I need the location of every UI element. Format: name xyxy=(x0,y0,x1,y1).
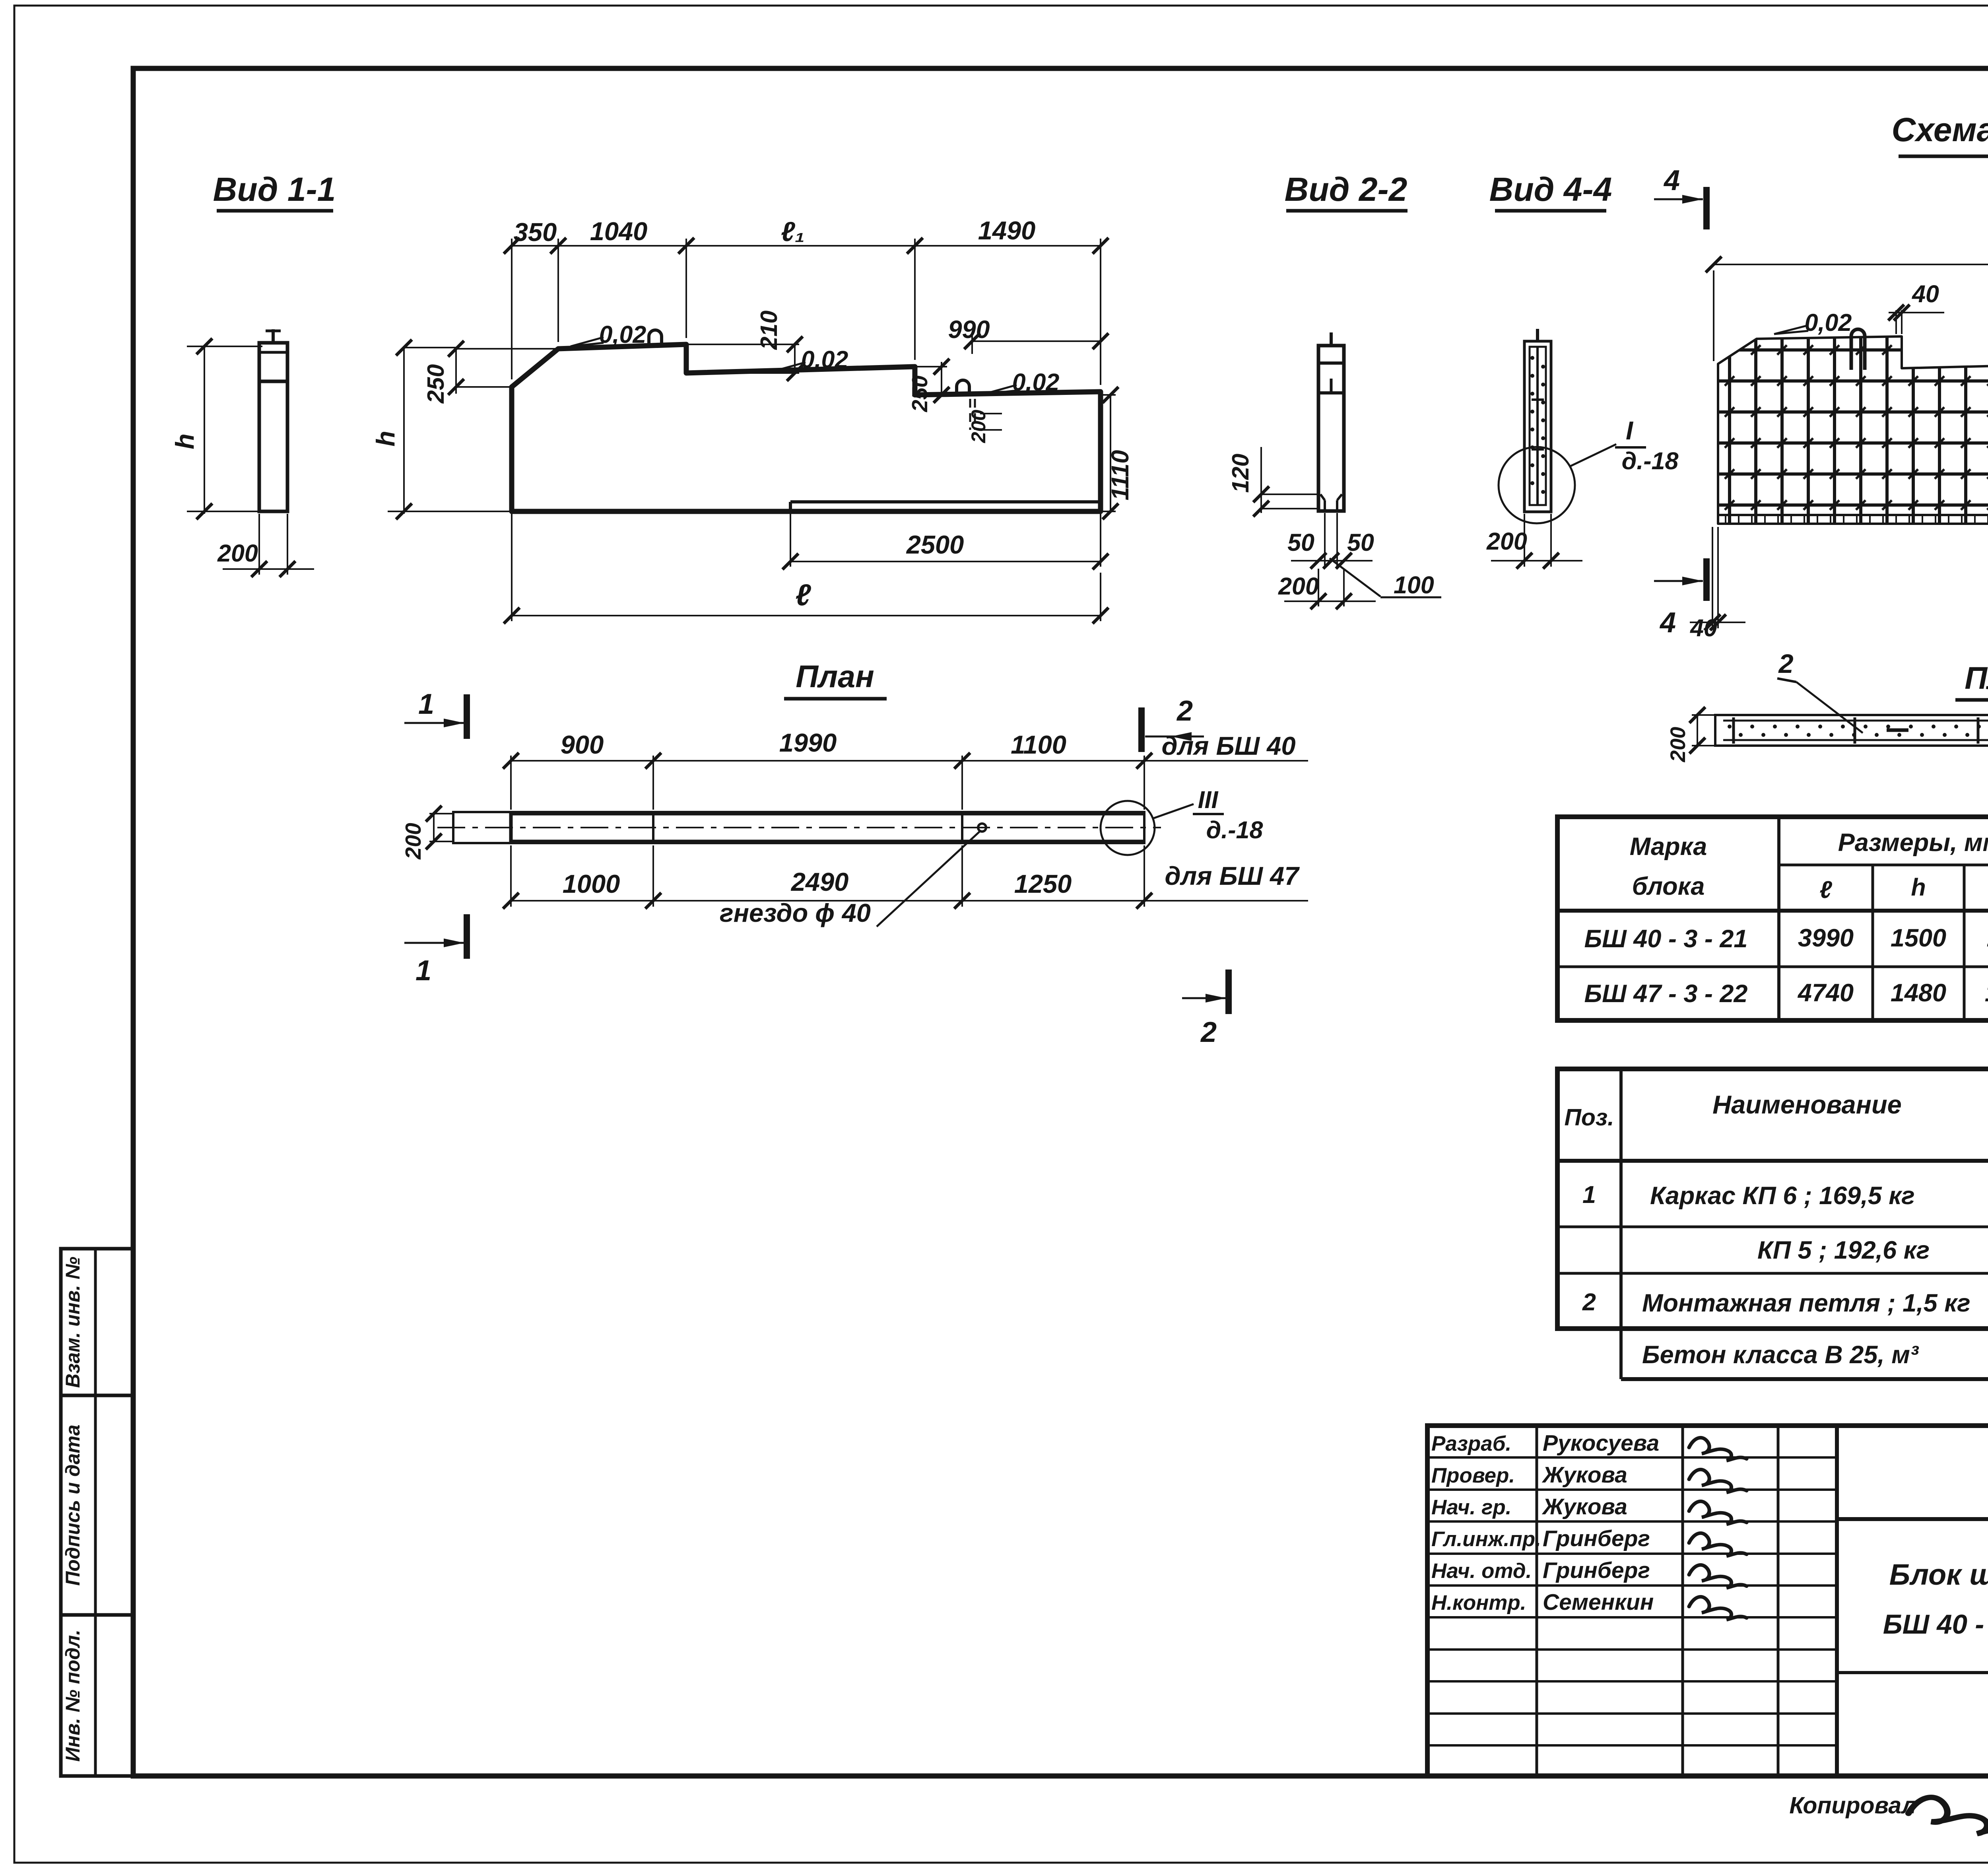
svg-text:Нач. гр.: Нач. гр. xyxy=(1431,1496,1511,1519)
100 leader 2-2 xyxy=(1330,558,1380,597)
2500 dimension xyxy=(790,561,1101,562)
50 50 dimensions 2-2 xyxy=(1324,513,1326,567)
svg-text:Поз.: Поз. xyxy=(1565,1104,1614,1131)
svg-text:План: План xyxy=(796,659,874,694)
svg-text:100: 100 xyxy=(1394,571,1434,598)
svg-text:1110: 1110 xyxy=(1107,450,1134,501)
section mark 2 bottom xyxy=(1182,997,1228,999)
svg-text:Взам. инв. №: Взам. инв. № xyxy=(62,1257,84,1388)
svg-text:200: 200 xyxy=(217,540,258,567)
svg-text:блока: блока xyxy=(1632,872,1705,900)
section mark 4 bottom xyxy=(1654,580,1703,582)
svg-text:для БШ 47: для БШ 47 xyxy=(1165,861,1300,890)
svg-text:д.-18: д.-18 xyxy=(1206,816,1263,843)
svg-text:0,02: 0,02 xyxy=(801,346,848,373)
svg-text:1100: 1100 xyxy=(1011,730,1066,759)
svg-text:h: h xyxy=(371,431,400,447)
detail circle I xyxy=(1499,447,1575,523)
svg-text:План: План xyxy=(1965,660,1988,696)
view 4-4 column with cage xyxy=(1524,341,1551,512)
svg-text:50: 50 xyxy=(1287,529,1314,556)
svg-text:900: 900 xyxy=(561,730,604,759)
handwritten signatures xyxy=(1689,1438,1747,1461)
svg-text:Рукосуева: Рукосуева xyxy=(1543,1430,1659,1456)
plan strip outline xyxy=(453,812,1144,843)
200 dimension 2-2 xyxy=(1318,569,1319,606)
svg-text:1490: 1490 xyxy=(978,216,1036,245)
svg-text:40: 40 xyxy=(1689,614,1717,641)
svg-text:350: 350 xyxy=(514,218,557,247)
svg-text:Жукова: Жукова xyxy=(1541,1462,1627,1488)
view 1-1 main profile outline xyxy=(512,344,1101,511)
svg-text:I: I xyxy=(1626,416,1634,445)
lifting loop on scheme surface 1 xyxy=(1851,329,1865,370)
table 2 bottom row box xyxy=(1619,1329,1623,1379)
bottom ledge line xyxy=(790,500,1101,503)
svg-text:1: 1 xyxy=(418,688,434,720)
svg-text:250: 250 xyxy=(907,375,932,412)
svg-text:2: 2 xyxy=(1200,1016,1217,1048)
rebar stub 2-2 xyxy=(1330,332,1333,345)
svg-text:0,02: 0,02 xyxy=(1805,309,1852,336)
svg-text:1860: 1860 xyxy=(1985,979,1988,1007)
bottom notch 2-2 xyxy=(1324,500,1326,511)
socket circle in plan xyxy=(978,824,986,832)
svg-text:2: 2 xyxy=(1582,1288,1596,1315)
svg-text:200: 200 xyxy=(967,410,990,443)
40 dimension bottom left xyxy=(1712,527,1713,628)
svg-text:200: 200 xyxy=(1278,573,1319,600)
svg-text:0,02: 0,02 xyxy=(599,321,646,348)
svg-text:Размеры, мм: Размеры, мм xyxy=(1838,829,1988,857)
svg-text:1110: 1110 xyxy=(1987,924,1988,952)
svg-text:h: h xyxy=(170,433,199,449)
lower dimension chain 1000 2490 1250 xyxy=(511,900,1308,902)
plan strip (reinforcement) xyxy=(1715,715,1988,746)
svg-text:Инв. № подл.: Инв. № подл. xyxy=(62,1630,84,1762)
view 2-2 column xyxy=(1318,346,1344,511)
section mark 1 top xyxy=(404,722,466,724)
svg-text:990: 990 xyxy=(948,316,990,344)
1110 right dimension xyxy=(1110,395,1111,511)
svg-text:III: III xyxy=(1198,786,1219,813)
svg-text:БШ 40 - 3 - 21, БШ 47 - 3 -: БШ 40 - 3 - 21, БШ 47 - 3 - 22 xyxy=(1883,1609,1988,1640)
200 dimension plan left xyxy=(433,814,435,841)
section mark 2 top xyxy=(1145,736,1204,738)
plan centerline xyxy=(437,827,1161,828)
l bottom dimension xyxy=(512,615,1101,616)
loop marks in strip xyxy=(1887,729,1908,732)
svg-text:ℓ: ℓ xyxy=(795,578,811,612)
svg-text:Жукова: Жукова xyxy=(1541,1494,1627,1519)
svg-text:250: 250 xyxy=(423,364,449,404)
svg-text:Бетон класса В 25, м³: Бетон класса В 25, м³ xyxy=(1642,1341,1919,1369)
svg-text:200: 200 xyxy=(401,823,425,860)
top dimension chain 350 1040 l1 1490 xyxy=(512,245,1101,247)
mesh grid xyxy=(1718,334,1988,525)
svg-text:1040: 1040 xyxy=(590,217,648,246)
svg-text:Вид 2-2: Вид 2-2 xyxy=(1285,171,1408,208)
svg-text:40: 40 xyxy=(1911,280,1939,307)
svg-text:Гл.инж.пр.: Гл.инж.пр. xyxy=(1431,1527,1541,1551)
svg-text:Вид 4-4: Вид 4-4 xyxy=(1489,171,1612,208)
view 1-1 section column xyxy=(259,343,287,511)
svg-text:Монтажная петля ; 1,5 кг: Монтажная петля ; 1,5 кг xyxy=(1642,1289,1971,1317)
svg-text:4: 4 xyxy=(1663,165,1680,196)
250 left dimension xyxy=(455,348,457,394)
svg-text:Каркас КП 6 ; 169,5 кг: Каркас КП 6 ; 169,5 кг xyxy=(1650,1182,1915,1210)
svg-text:Гринберг: Гринберг xyxy=(1543,1526,1650,1551)
svg-text:2: 2 xyxy=(1176,695,1193,727)
svg-text:Блок шкафной стенки: Блок шкафной стенки xyxy=(1889,1558,1988,1591)
svg-text:Семенкин: Семенкин xyxy=(1543,1589,1654,1615)
svg-text:200: 200 xyxy=(1486,528,1527,555)
svg-text:1000: 1000 xyxy=(563,869,620,898)
scheme outline xyxy=(1718,336,1988,524)
h dimension (main profile) xyxy=(403,348,405,514)
rebar stub 4-4 xyxy=(1536,329,1539,341)
upper dimension chain 900 1990 1100 xyxy=(511,760,1308,762)
250 step2 dimension xyxy=(941,362,942,395)
section mark 4 top xyxy=(1654,198,1703,200)
svg-text:Марка: Марка xyxy=(1630,833,1707,861)
h dimension (left column) xyxy=(204,346,205,514)
gnezdo leader xyxy=(877,831,980,927)
svg-text:1: 1 xyxy=(415,955,431,987)
200 dimension (left column) xyxy=(258,514,260,575)
left signature grid xyxy=(1536,1426,1538,1776)
svg-text:1500: 1500 xyxy=(1891,924,1946,952)
table 2: specification xyxy=(1557,1069,1988,1329)
svg-text:2500: 2500 xyxy=(906,530,964,559)
svg-text:Н.контр.: Н.контр. xyxy=(1431,1591,1526,1615)
hidden socket lines (dashed) xyxy=(969,399,971,430)
svg-text:4740: 4740 xyxy=(1797,979,1854,1007)
left stamp column boxes xyxy=(61,1249,133,1776)
svg-text:210: 210 xyxy=(756,311,782,350)
svg-text:1480: 1480 xyxy=(1891,979,1946,1007)
svg-text:0,02: 0,02 xyxy=(1012,369,1060,396)
svg-text:Схема армирования: Схема армирования xyxy=(1891,111,1988,148)
svg-text:д.-18: д.-18 xyxy=(1622,447,1679,474)
svg-text:3990: 3990 xyxy=(1798,924,1854,952)
svg-text:50: 50 xyxy=(1347,529,1374,556)
lifting loop on surface 1 xyxy=(649,330,662,345)
svg-text:БШ 40 - 3 - 21: БШ 40 - 3 - 21 xyxy=(1584,925,1748,953)
svg-text:Копировал: Копировал xyxy=(1789,1792,1916,1819)
svg-text:Вид 1-1: Вид 1-1 xyxy=(213,171,336,208)
120 dimension 2-2 xyxy=(1260,447,1262,513)
svg-text:КП 5 ; 192,6 кг: КП 5 ; 192,6 кг xyxy=(1757,1236,1930,1264)
200 dimension 4-4 xyxy=(1524,514,1525,567)
svg-text:2: 2 xyxy=(1778,649,1793,679)
bottom band line xyxy=(1718,514,1988,516)
svg-text:1250: 1250 xyxy=(1014,869,1072,898)
svg-text:200: 200 xyxy=(1666,727,1690,762)
svg-text:h: h xyxy=(1911,874,1926,901)
svg-text:Подпись и дата: Подпись и дата xyxy=(62,1424,84,1585)
210 step dimension xyxy=(794,344,796,373)
section mark 1 bottom xyxy=(404,942,466,944)
rebar stub on column top xyxy=(272,329,275,344)
svg-text:ℓ₁: ℓ₁ xyxy=(781,216,805,247)
svg-text:1990: 1990 xyxy=(779,728,837,757)
200 dimension strip xyxy=(1697,715,1698,746)
svg-text:4: 4 xyxy=(1659,607,1676,639)
svg-text:2490: 2490 xyxy=(790,867,849,896)
title block outer xyxy=(1427,1426,1988,1776)
svg-text:Гринберг: Гринберг xyxy=(1543,1558,1650,1583)
990 dimension xyxy=(972,340,1101,342)
40 dimension at step 1 xyxy=(1895,310,1897,334)
detail circle III on plan xyxy=(1101,801,1155,855)
svg-text:ℓ: ℓ xyxy=(1819,876,1832,903)
lifting loop on surface 3 xyxy=(957,380,969,396)
table 1: block marks xyxy=(1557,817,1988,1020)
svg-text:Провер.: Провер. xyxy=(1431,1464,1515,1487)
svg-text:120: 120 xyxy=(1227,454,1254,493)
svg-text:Нач. отд.: Нач. отд. xyxy=(1431,1559,1532,1583)
svg-text:Наименование: Наименование xyxy=(1712,1090,1902,1119)
svg-text:БШ 47 - 3 - 22: БШ 47 - 3 - 22 xyxy=(1584,980,1748,1008)
scheme l dimension xyxy=(1714,264,1988,265)
svg-text:гнездо ɸ 40: гнездо ɸ 40 xyxy=(720,898,871,927)
svg-text:1: 1 xyxy=(1582,1181,1596,1208)
title block main splits xyxy=(1837,1517,1988,1521)
svg-text:Разраб.: Разраб. xyxy=(1431,1432,1511,1455)
200 socket dimension xyxy=(980,413,1002,414)
